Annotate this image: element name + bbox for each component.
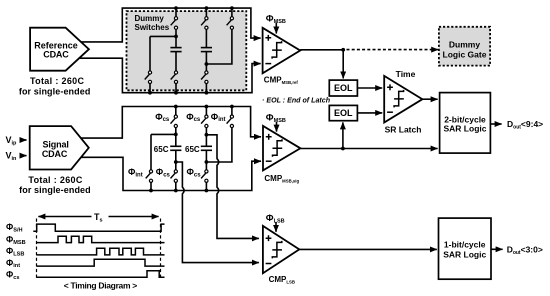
- wire: reference bottom rail to CMP_MSB,ref -: [79, 58, 261, 92]
- label: Phi_int (timing): [6, 258, 20, 269]
- switch: Phi_int lower-left: [146, 170, 153, 183]
- label: Dummy Logic Gate: [443, 40, 487, 60]
- label: Dout<3:0>: [507, 244, 543, 256]
- wire: PhiMSB clock arrow (ref): [275, 23, 277, 34]
- dummy logic gate box: [439, 27, 490, 66]
- wire: signal col C upper lead: [205, 107, 207, 116]
- svg-text:· EOL : End of Latch: · EOL : End of Latch: [262, 96, 331, 104]
- svg-text:ΦLSB: ΦLSB: [6, 246, 24, 257]
- svg-text:SAR Logic: SAR Logic: [443, 249, 486, 259]
- svg-text:CMPLSB: CMPLSB: [269, 275, 295, 285]
- svg-text:Logic Gate: Logic Gate: [443, 50, 487, 60]
- block: Signal CDAC: [30, 126, 89, 169]
- waveform: Phi_LSB: [37, 248, 165, 255]
- svg-text:Dummy: Dummy: [449, 40, 480, 50]
- svg-text:Φint: Φint: [6, 258, 20, 269]
- wire: [175, 128, 177, 147]
- waveform: Phi_S/H: [33, 224, 164, 231]
- wire: [205, 52, 207, 71]
- node: cap2 bottom: [205, 160, 209, 164]
- label: Phi_MSB (timing): [6, 234, 26, 245]
- label: PhiMSB (ref): [266, 13, 286, 25]
- wire: signal top rail to CMP_MSB,sig +: [81, 107, 261, 139]
- node: cap1 top: [174, 133, 178, 137]
- wire: [175, 150, 177, 170]
- waveform: Phi_MSB: [37, 236, 165, 242]
- comparator: SR Latch (Time): [384, 76, 422, 123]
- node: dummy cap1 top: [174, 35, 178, 39]
- label: for single-ended (reference): [19, 86, 91, 96]
- svg-text:Time: Time: [396, 69, 416, 79]
- wire: [205, 83, 207, 92]
- switch: Phi_cs lower B: [171, 170, 178, 183]
- label: 65C (left): [154, 145, 169, 154]
- switch: Phi_cs lower C: [201, 170, 208, 183]
- node: ref top rail junctions: [174, 6, 234, 10]
- svg-text:SAR Logic: SAR Logic: [444, 124, 487, 134]
- wire: EOL2 to SR latch -: [357, 112, 382, 114]
- wire: cap2 bottom link to Phi_int column: [206, 128, 232, 162]
- switch: Phi_int top D: [227, 115, 234, 128]
- wire: Vin input arrow: [20, 155, 27, 157]
- block: 2-bit/cycle SAR Logic: [440, 93, 491, 154]
- wire: [175, 182, 177, 190]
- label: CMP_MSB,ref: [264, 76, 299, 86]
- svg-text:SR Latch: SR Latch: [385, 125, 422, 135]
- wire: [150, 182, 152, 190]
- block: 1-bit/cycle SAR Logic: [439, 218, 492, 279]
- wire: dummy col A link: [150, 35, 176, 37]
- wire: dummy col C upper lead: [205, 8, 207, 17]
- wire: [175, 29, 177, 47]
- node: sig output junction: [341, 147, 345, 151]
- wire: CMP_MSB,sig output to 2-bit SAR logic: [300, 148, 437, 150]
- block: Reference CDAC: [30, 28, 89, 71]
- wire: PhiMSB clock arrow (sig): [276, 122, 278, 132]
- svg-text:65C: 65C: [185, 145, 200, 154]
- switch: Phi_cs top B: [171, 115, 178, 128]
- svg-text:65C: 65C: [154, 145, 169, 154]
- svg-text:for single-ended: for single-ended: [19, 86, 91, 96]
- wire: signal bottom rail to CMP_MSB,sig -: [81, 157, 261, 190]
- waveform: Phi_cs: [37, 271, 165, 278]
- svg-text:Φcs: Φcs: [6, 270, 19, 281]
- label: Phi_LSB (timing): [6, 246, 24, 257]
- label: Dummy Switches: [135, 14, 170, 32]
- node: ref output junction: [341, 48, 345, 52]
- label: Phi_cs (top row 1): [155, 112, 170, 123]
- svg-text:Φcs: Φcs: [156, 167, 171, 178]
- wire: dummy col B upper lead: [175, 8, 177, 17]
- wire: CMP_MSB,ref output: [300, 49, 343, 51]
- node: cap2 top: [205, 133, 209, 137]
- svg-text:Dout<9:4>: Dout<9:4>: [507, 119, 543, 131]
- wire: dashed to Dummy Logic Gate: [347, 49, 439, 51]
- wire: [205, 29, 207, 47]
- wire: Dout<3:0> output arrow: [491, 248, 503, 250]
- label: Phi_S/H: [6, 222, 23, 233]
- wire: signal col D lead: [231, 107, 233, 116]
- wire: dummy col A lead: [149, 36, 151, 71]
- svg-text:1-bit/cycle: 1-bit/cycle: [444, 239, 486, 249]
- wire: [205, 150, 207, 170]
- wire: CMP_LSB output to 1-bit SAR logic: [299, 248, 437, 250]
- label: < Timing Diagram >: [64, 281, 138, 291]
- wire: EOL1 to SR latch +: [357, 87, 382, 89]
- svg-text:EOL: EOL: [334, 108, 353, 118]
- wire: [175, 83, 177, 92]
- switch: dummy top B: [171, 17, 178, 30]
- capacitor: 65C left: [170, 146, 181, 150]
- label: Phi_cs (top row 2): [186, 112, 201, 123]
- svg-text:ΦMSB: ΦMSB: [6, 234, 26, 245]
- node: signal bottom rail junctions: [149, 189, 208, 193]
- switch: dummy lower C: [201, 71, 208, 84]
- label: Phi_int (bottom row): [128, 167, 143, 178]
- label: Total : 260C (signal): [28, 175, 83, 185]
- svg-text:Φcs: Φcs: [155, 112, 170, 123]
- wire: SR latch output to 2-bit SAR logic: [422, 98, 437, 100]
- svg-text:Total : 260C: Total : 260C: [30, 76, 85, 86]
- node: cap1 bottom: [174, 160, 178, 164]
- timing diagram: period dashed boundary right: [160, 219, 162, 280]
- svg-text:ΦS/H: ΦS/H: [6, 222, 23, 233]
- timing diagram: Ts span arrow: [38, 211, 158, 224]
- label: Dout<9:4>: [507, 119, 543, 131]
- svg-text:Φcs: Φcs: [187, 167, 202, 178]
- timing diagram: period dashed boundary left: [36, 219, 38, 280]
- node: ref bottom rail junctions: [148, 91, 208, 95]
- svg-text:< Timing Diagram >: < Timing Diagram >: [64, 281, 138, 291]
- label: 65C (right): [185, 145, 200, 154]
- op-amp CMP_MSB,sig: [263, 126, 300, 170]
- wire: signal col B upper lead: [175, 107, 177, 116]
- switch: dummy lower-left: [145, 71, 152, 84]
- svg-text:CMPMSB,sig: CMPMSB,sig: [264, 174, 299, 184]
- label: Phi_cs (bottom row 2): [187, 167, 202, 178]
- wire: [205, 128, 207, 147]
- wire: Dout<9:4> output arrow: [490, 123, 502, 125]
- svg-text:Switches: Switches: [135, 23, 170, 32]
- EOL box 1: [329, 80, 357, 96]
- svg-text:for single-ended: for single-ended: [19, 185, 91, 195]
- label: Phi_int (top row): [211, 112, 226, 123]
- svg-text:Vip: Vip: [6, 135, 18, 146]
- op-amp CMP_MSB,ref: [263, 28, 301, 74]
- svg-text:Signal: Signal: [42, 139, 68, 149]
- svg-text:Vin: Vin: [6, 151, 18, 162]
- wire: cap1 bottom to CMP_LSB - (with hop): [176, 162, 259, 263]
- label: Vip: [6, 135, 18, 146]
- svg-text:EOL: EOL: [334, 83, 353, 93]
- svg-text:Total : 260C: Total : 260C: [28, 175, 83, 185]
- wire: cap2 top to CMP_LSB + (with hops): [206, 135, 259, 239]
- label: CMP_LSB: [269, 275, 295, 285]
- label: Total : 260C (reference): [30, 76, 85, 86]
- svg-text:Φint: Φint: [211, 112, 226, 123]
- waveform: Phi_int: [37, 259, 165, 266]
- switch: dummy top C: [201, 17, 208, 30]
- note: EOL = End of Latch: [262, 96, 331, 104]
- switch: Phi_cs top C: [201, 115, 208, 128]
- switch: dummy lower B: [171, 71, 178, 84]
- wire: reference top rail to CMP_MSB,ref +: [81, 8, 261, 42]
- wire: [175, 52, 177, 71]
- svg-text:Dout<3:0>: Dout<3:0>: [507, 244, 543, 256]
- wire: signal col A link: [151, 133, 176, 135]
- op-amp CMP_LSB: [263, 226, 299, 273]
- capacitor: dummy C2: [201, 48, 212, 52]
- wire: signal col A lead: [150, 134, 152, 169]
- svg-text:Φcs: Φcs: [186, 112, 201, 123]
- wire: [205, 182, 207, 190]
- wire: PhiLSB clock arrow: [275, 222, 277, 232]
- label: Time: [396, 69, 416, 79]
- svg-text:Φint: Φint: [128, 167, 143, 178]
- label: Phi_cs (bottom row 1): [156, 167, 171, 178]
- switch: dummy top D: [227, 17, 234, 30]
- dummy switches box: [127, 11, 247, 90]
- svg-text:CDAC: CDAC: [43, 50, 69, 60]
- label: SR Latch: [385, 125, 422, 135]
- label: PhiLSB: [266, 213, 285, 225]
- label: for single-ended (signal): [19, 185, 91, 195]
- svg-text:CDAC: CDAC: [42, 149, 68, 159]
- label: CMP_MSB,sig: [264, 174, 299, 184]
- node: signal top rail junctions: [174, 105, 234, 109]
- EOL box 2: [329, 105, 357, 120]
- wire: junction up to EOL2: [342, 122, 344, 148]
- wire: Vip input arrow: [20, 139, 27, 141]
- capacitor: 65C right: [201, 146, 212, 150]
- label: Phi_cs (timing): [6, 270, 19, 281]
- label: Vin: [6, 151, 18, 162]
- wire: dummy col D lead: [231, 8, 233, 17]
- node: dummy cap2 bottom: [205, 62, 209, 66]
- wire: dummy cap2 bottom link: [206, 29, 232, 64]
- svg-text:CMPMSB,ref: CMPMSB,ref: [264, 76, 299, 86]
- label: PhiMSB (sig): [266, 113, 286, 125]
- wire: junction down to EOL1: [342, 50, 344, 79]
- capacitor: dummy C1: [170, 48, 181, 52]
- wire: [149, 83, 151, 92]
